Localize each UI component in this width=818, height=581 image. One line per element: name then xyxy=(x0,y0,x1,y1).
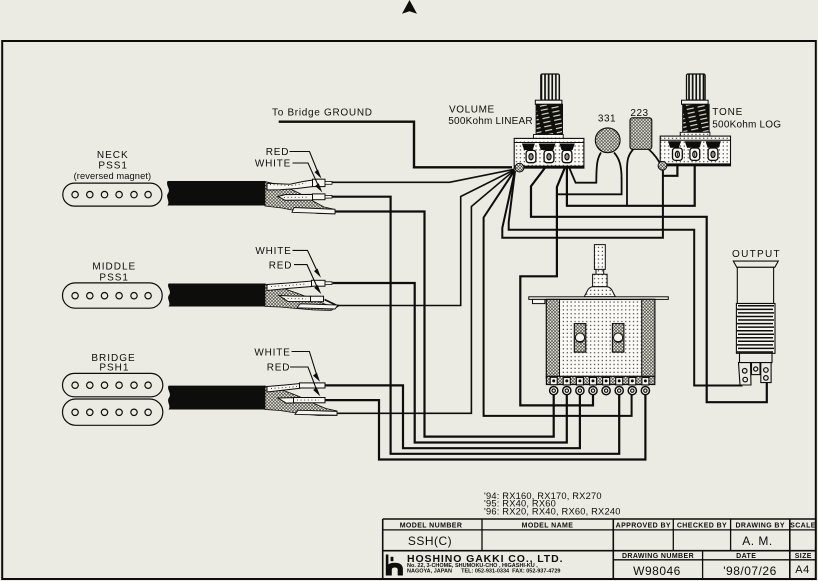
svg-text:'96: RX20, RX40, RX60, RX240: '96: RX20, RX40, RX60, RX240 xyxy=(484,506,621,516)
svg-text:NAGOYA, JAPAN TEL: 052-93: NAGOYA, JAPAN TEL: 052-931-0334 FAX: 052… xyxy=(407,569,560,575)
wire to-bridge-ground bus xyxy=(279,122,512,168)
switch lever shaft xyxy=(593,245,608,287)
svg-text:A4: A4 xyxy=(795,564,809,576)
wire middle red jog xyxy=(325,300,338,306)
svg-text:PSS1: PSS1 xyxy=(99,272,129,283)
wire middle shield to junction xyxy=(334,170,515,306)
svg-text:VOLUME: VOLUME xyxy=(449,104,495,115)
wire tone lug1 to ground blob xyxy=(663,163,678,176)
volume ground junction xyxy=(515,163,524,172)
wire volume lug2 to output jack tip xyxy=(531,163,767,403)
wire neck shield to switch ring1 xyxy=(331,212,554,437)
title block header texts xyxy=(400,523,816,560)
selector switch (5-way) xyxy=(529,245,669,395)
capacitor 223 right leg xyxy=(649,149,662,166)
hoshino logo xyxy=(386,555,403,576)
wire bridge white to switch ring3 xyxy=(325,385,580,448)
jack tip lug xyxy=(761,363,771,383)
switch body xyxy=(546,299,654,377)
svg-text:RED: RED xyxy=(266,147,290,158)
wire junction to switch ring7 xyxy=(484,171,632,416)
svg-text:WHITE: WHITE xyxy=(254,347,290,358)
svg-text:PSS1: PSS1 xyxy=(98,160,128,171)
output jack xyxy=(732,249,781,385)
middle cable xyxy=(168,280,338,310)
svg-text:SIZE: SIZE xyxy=(795,553,812,560)
svg-text:(reversed magnet): (reversed magnet) xyxy=(74,171,152,181)
title block value texts xyxy=(408,534,810,578)
svg-text:DRAWING BY: DRAWING BY xyxy=(735,523,785,530)
svg-text:500Kohm LINEAR: 500Kohm LINEAR xyxy=(448,116,533,127)
potentiometer VOLUME xyxy=(448,74,584,172)
title block table xyxy=(383,519,816,579)
north arrow marker xyxy=(402,0,417,14)
wire volume lug3 to switch ring4 xyxy=(520,163,593,406)
wire volume lug1 to junction xyxy=(521,163,531,168)
svg-text:331: 331 xyxy=(598,113,616,124)
capacitor 331 xyxy=(595,128,620,153)
svg-text:CHECKED BY: CHECKED BY xyxy=(677,523,727,530)
capacitor 331 right leg xyxy=(614,153,622,180)
svg-text:RED: RED xyxy=(267,363,291,374)
wire volume lug3 to tone lug2 xyxy=(567,163,695,206)
svg-text:MODEL NUMBER: MODEL NUMBER xyxy=(400,523,463,530)
svg-text:A. M.: A. M. xyxy=(742,534,773,548)
svg-text:DATE: DATE xyxy=(736,553,756,560)
wire junction to tone ground blob xyxy=(502,169,663,238)
pickup NECK PSS1 xyxy=(63,150,162,206)
switch terminal rings xyxy=(550,387,650,395)
capacitor 223 left leg xyxy=(627,149,634,206)
svg-text:'98/07/26: '98/07/26 xyxy=(723,564,777,578)
jack sleeve lug xyxy=(739,363,752,385)
svg-text:500Kohm LOG: 500Kohm LOG xyxy=(712,119,781,130)
switch screw post left xyxy=(574,324,586,353)
notes xyxy=(484,491,621,516)
svg-text:MODEL NAME: MODEL NAME xyxy=(522,523,574,530)
svg-text:RED: RED xyxy=(269,260,293,271)
wire neck red to junction xyxy=(332,169,515,182)
switch lugs row xyxy=(550,377,649,385)
bridge cable xyxy=(168,383,337,416)
neck cable xyxy=(167,179,335,214)
wire volume lug3 to cap331 left leg xyxy=(567,163,596,183)
svg-text:To Bridge GROUND: To Bridge GROUND xyxy=(272,107,373,118)
svg-text:MIDDLE: MIDDLE xyxy=(92,262,136,273)
svg-text:W98046: W98046 xyxy=(633,564,681,578)
switch screw post right xyxy=(612,324,624,353)
wire bridge red to switch ring8 xyxy=(325,391,645,460)
pickup BRIDGE PSH1 (humbucker) xyxy=(63,353,163,425)
switch mounting plate xyxy=(529,297,669,300)
svg-text:APPROVED BY: APPROVED BY xyxy=(616,523,671,530)
svg-text:SSH(C): SSH(C) xyxy=(408,534,452,548)
wire junction to output jack sleeve xyxy=(509,171,743,386)
wire bridge shield to junction xyxy=(331,170,515,413)
capacitor 331 left leg xyxy=(596,153,601,184)
wire middle white to switch ring2 xyxy=(333,283,567,443)
svg-text:TONE: TONE xyxy=(712,107,743,118)
wire cap331 right leg bus xyxy=(557,178,622,194)
jack middle piece xyxy=(752,363,761,375)
tone ground blob xyxy=(658,161,667,170)
svg-text:OUTPUT: OUTPUT xyxy=(732,249,781,260)
potentiometer TONE xyxy=(658,74,781,170)
svg-text:WHITE: WHITE xyxy=(255,246,291,257)
pickup MIDDLE PSS1 xyxy=(63,262,163,309)
capacitor 223 xyxy=(630,118,652,150)
svg-text:DRAWING NUMBER: DRAWING NUMBER xyxy=(622,553,694,560)
svg-text:223: 223 xyxy=(630,108,648,119)
wire neck white to switch ring6 xyxy=(332,197,620,454)
svg-text:PSH1: PSH1 xyxy=(99,363,129,374)
svg-text:SCALE: SCALE xyxy=(790,523,816,530)
svg-text:WHITE: WHITE xyxy=(255,159,291,170)
